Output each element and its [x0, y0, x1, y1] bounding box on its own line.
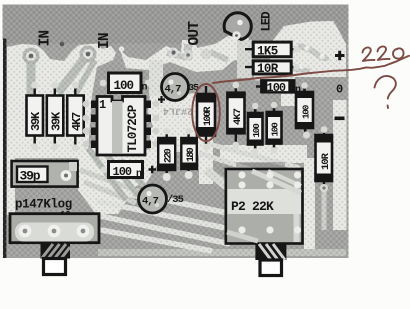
svg-text:1K5: 1K5 [257, 45, 278, 59]
pour top-left around IN pads [7, 44, 116, 159]
trimmer 39p [12, 161, 78, 187]
svg-text:0: 0 [336, 83, 343, 97]
pin 1..4 left [91, 101, 98, 109]
board left edge line [3, 39, 6, 259]
svg-text:100: 100 [270, 122, 281, 137]
wire [96, 201, 230, 229]
pour right strip [333, 100, 347, 230]
darker top band of scan [3, 5, 349, 44]
resistor 220 vertical [158, 128, 175, 181]
svg-text:180: 180 [186, 147, 197, 162]
pad OUT a [169, 48, 179, 58]
wire [80, 170, 140, 192]
resistor R 39K #2 [47, 81, 64, 150]
capacitor 100n vertical #2 [267, 102, 282, 154]
svg-text:220: 220 [164, 148, 175, 163]
pour below IC left [78, 148, 160, 214]
pour below 100n top-right [281, 94, 311, 106]
pour mid white (ghost text zone) [148, 93, 208, 133]
capacitor C 4,7 bottom [139, 185, 184, 213]
grey traces inside OUT pour [167, 44, 228, 60]
svg-text:10R: 10R [320, 152, 332, 170]
traces in top-right pour [284, 46, 328, 71]
wire [205, 143, 300, 168]
resistor 10R [242, 61, 297, 76]
scanned grey field [3, 5, 349, 259]
pour under LED [215, 36, 251, 70]
svg-text:100: 100 [251, 123, 262, 138]
resistor 4K7 #2 [227, 82, 244, 149]
wire [84, 182, 136, 203]
terminal label - [335, 117, 345, 121]
pour left strip down to P1 [7, 150, 15, 215]
svg-text:P2 22K: P2 22K [231, 199, 274, 214]
capacitor 100n vertical #1 [248, 103, 263, 155]
pads left [83, 101, 90, 108]
svg-text:n: n [142, 83, 148, 94]
svg-text:1: 1 [99, 98, 106, 112]
grey traces inside top-left pour [31, 54, 95, 95]
pour neck from OUT down [149, 60, 163, 96]
pour behind 220/180 [150, 127, 207, 152]
svg-text:39K: 39K [29, 111, 43, 131]
pad OUT b [183, 49, 212, 61]
svg-text:OUT: OUT [187, 21, 203, 46]
resistor 10R vertical bottom-right [316, 126, 333, 192]
op-amp U1 TL072CP [83, 97, 160, 156]
svg-text:39K: 39K [50, 111, 64, 131]
resistor 100n above IC [100, 73, 152, 94]
svg-text:10R: 10R [257, 62, 279, 76]
wire [95, 187, 140, 197]
pins right [144, 101, 151, 109]
handwritten 220 [363, 48, 375, 61]
scan smudge above P2 [236, 162, 285, 169]
pour bottom-right vertical [304, 158, 315, 252]
pour between 10R and 100n top-right [254, 75, 295, 81]
svg-text:/35: /35 [167, 194, 184, 206]
body [97, 97, 145, 156]
via near OUT top [194, 40, 200, 46]
resistor 1K5 [242, 42, 297, 58]
wire second diagonal [76, 60, 95, 93]
connector K1 (hatched) [41, 244, 71, 275]
potentiometer P2 22K [226, 169, 303, 244]
capacitor C 4,7 top [158, 74, 199, 104]
wire [96, 229, 212, 251]
svg-text:4K7: 4K7 [232, 108, 244, 125]
svg-text:4K7: 4K7 [70, 112, 84, 131]
wire out vertical [184, 44, 192, 60]
trace below 10R bottom pad [322, 191, 327, 230]
wire from IN1 pad down [27, 56, 36, 95]
svg-text:4,7: 4,7 [142, 196, 159, 208]
handwritten ? [375, 76, 396, 99]
resistor R 4K7 #1 [67, 81, 84, 151]
wire [167, 53, 188, 58]
LED [224, 13, 251, 40]
svg-text:IN: IN [38, 31, 54, 47]
pour left of 1K5 [237, 40, 252, 78]
svg-text:100: 100 [114, 79, 134, 93]
wire [96, 215, 230, 244]
wire [88, 148, 126, 200]
capacitor 100n vertical #3 [296, 82, 313, 138]
svg-text:4,7: 4,7 [165, 84, 182, 96]
svg-text:100R: 100R [203, 106, 214, 126]
resistor 100R (circled in red) [197, 86, 215, 150]
red oval around 100R [192, 84, 220, 141]
resistor R 39K #1 [27, 81, 44, 150]
plus mark of C 4,7 bottom [149, 166, 157, 174]
pads in TR pour [298, 45, 324, 69]
diagonal traces below 39p [80, 170, 140, 203]
label p1 47K log [15, 198, 72, 221]
via top [60, 42, 64, 46]
wire [102, 148, 138, 196]
pour top-right [270, 21, 346, 77]
via top2 [119, 46, 124, 51]
wire [120, 160, 146, 188]
wire from IN2 pad diagonal [58, 54, 88, 93]
svg-text:LED: LED [260, 11, 274, 32]
scanner grain over grey area [3, 5, 349, 259]
resistor 180 vertical [181, 128, 197, 179]
bottom light band [98, 249, 346, 256]
svg-text:n: n [136, 169, 142, 180]
ghost print text [163, 105, 193, 116]
pour around OUT pads [120, 40, 233, 72]
svg-text:n: n [295, 85, 301, 96]
wire [196, 152, 258, 172]
white paper sliver left of board edge [0, 40, 3, 258]
terminal label + [335, 51, 345, 61]
wire [284, 68, 310, 71]
red wire/line to 220 [213, 56, 409, 83]
resistor 100n horizontal bottom [101, 162, 143, 181]
connector K2 (hatched) [255, 244, 286, 276]
pad right of 1K5 [293, 46, 299, 70]
svg-text:100: 100 [267, 81, 286, 95]
halftone dither over grey area [3, 5, 349, 259]
pour under resistor cluster [220, 145, 307, 163]
svg-text:39p: 39p [20, 169, 41, 184]
wire [298, 46, 328, 58]
diagonal traces bottom centre [95, 187, 232, 251]
wire [128, 192, 232, 214]
wire to LED [210, 52, 228, 60]
trace from 180 area to P2 [206, 170, 233, 191]
potentiometer P1 [10, 214, 99, 243]
pad IN2 [80, 46, 97, 63]
grey traces inside below-IC pour [88, 148, 146, 200]
pad IN1 [23, 48, 40, 65]
plus mark [158, 96, 165, 103]
svg-text:100: 100 [113, 165, 132, 179]
svg-text:TL072CP: TL072CP [126, 105, 140, 152]
diagonal traces above P2 [196, 143, 300, 172]
resistor 100n top-right [256, 80, 301, 96]
svg-text:100: 100 [301, 104, 312, 119]
svg-text:IN: IN [97, 33, 113, 49]
